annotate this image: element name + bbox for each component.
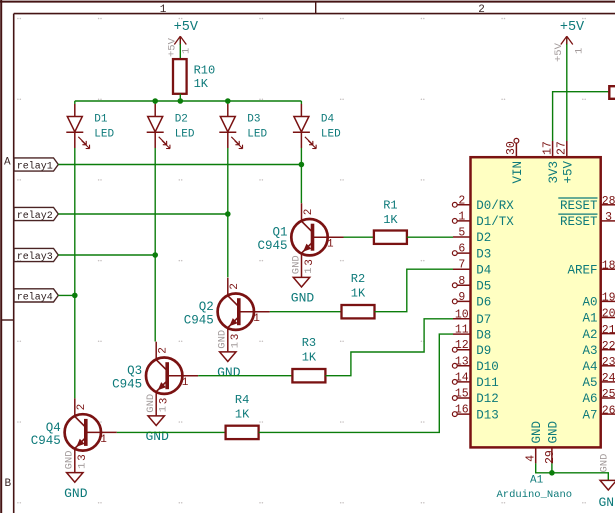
label Q2 value C945: [184, 314, 214, 328]
svg-text:12: 12: [455, 339, 469, 352]
svg-text:3: 3: [304, 259, 316, 266]
pin 2 D0/RX: [452, 194, 514, 213]
frame column label 2: [478, 4, 485, 16]
label R3: [302, 336, 316, 350]
pin 19 A0: [582, 292, 615, 310]
svg-text:23: 23: [602, 356, 615, 369]
hidden power pin text GND (Q4): [64, 450, 89, 469]
svg-text:LED: LED: [175, 128, 195, 140]
svg-text:+5V: +5V: [560, 20, 585, 35]
svg-text:D0/RX: D0/RX: [476, 199, 514, 213]
pin 12 D9: [452, 339, 491, 358]
svg-text:D1: D1: [94, 113, 108, 125]
pin 24 A5: [582, 372, 615, 390]
svg-text:A6: A6: [582, 392, 597, 406]
svg-text:AREF: AREF: [567, 263, 597, 277]
hierarchical label relay4: [14, 289, 58, 304]
svg-text:R3: R3: [302, 336, 316, 350]
pin 10 D7: [453, 308, 491, 327]
svg-text:C945: C945: [257, 239, 287, 253]
pin 14 D11: [452, 371, 498, 390]
wire +5V to R10: [179, 44, 181, 59]
svg-text:relay3: relay3: [17, 251, 53, 263]
label D2 value LED: [175, 128, 195, 140]
svg-text:D8: D8: [476, 328, 491, 342]
svg-text:GND: GND: [291, 291, 315, 306]
transistor Q1: [291, 203, 343, 277]
label Arduino_Nano: [497, 489, 573, 501]
wire +5V to pin 27: [566, 44, 568, 141]
svg-text:14: 14: [455, 371, 469, 384]
svg-text:D13: D13: [476, 408, 499, 422]
svg-text:D12: D12: [476, 392, 499, 406]
junction bus/D2: [152, 98, 158, 104]
pin 17 3V3: [541, 141, 561, 184]
wire GND pin 29: [551, 463, 553, 472]
svg-text:D2: D2: [175, 113, 188, 125]
ground symbol below Q1: [293, 277, 309, 287]
pin 15 D12: [452, 388, 498, 407]
svg-text:D9: D9: [476, 344, 491, 358]
svg-text:1: 1: [182, 377, 189, 389]
label D4 value LED: [321, 128, 341, 140]
svg-text:Q2: Q2: [199, 300, 214, 314]
label GND bottom right: [599, 495, 615, 510]
svg-text:2: 2: [76, 404, 88, 411]
wire Q2 base to R2: [270, 311, 342, 313]
svg-text:Q3: Q3: [127, 364, 142, 378]
pin 13 D10: [452, 355, 498, 374]
wire Q3 base to R3: [198, 375, 292, 377]
frame row label B: [4, 478, 11, 490]
junction relay2/column: [225, 211, 231, 217]
svg-text:D3: D3: [476, 247, 491, 261]
svg-text:GND: GND: [145, 429, 169, 444]
svg-text:1K: 1K: [302, 351, 317, 365]
wire GND to symbol: [552, 473, 608, 481]
svg-text:30: 30: [505, 141, 518, 155]
wire D4 cathode column: [300, 148, 302, 203]
svg-text:D7: D7: [476, 313, 491, 327]
svg-text:GND: GND: [64, 486, 88, 501]
svg-text:+5V: +5V: [167, 37, 179, 57]
pin 27 +5V: [556, 141, 576, 184]
hidden power pin text +5V#1: [167, 37, 193, 57]
svg-text:GND: GND: [145, 394, 157, 413]
hierarchical label relay3: [14, 248, 58, 263]
ground symbol below Q3: [148, 416, 164, 426]
svg-text:LED: LED: [247, 128, 267, 140]
svg-text:A: A: [4, 157, 11, 169]
resistor R2: [342, 305, 375, 318]
op-amp — Arduino_Nano body U/A1: [471, 157, 601, 447]
svg-text:+5V: +5V: [561, 160, 575, 183]
svg-text:1: 1: [229, 342, 241, 348]
pin 28 RESET: [558, 195, 615, 213]
svg-text:1: 1: [158, 406, 170, 412]
svg-text:C945: C945: [31, 434, 61, 448]
svg-text:3V3: 3V3: [547, 161, 561, 184]
resistor R1: [374, 231, 407, 244]
svg-text:GND: GND: [599, 454, 611, 473]
pin 23 A4: [582, 356, 615, 374]
svg-text:D4: D4: [321, 113, 335, 125]
label GND below Q4: [64, 486, 88, 501]
junction relay1/column: [299, 162, 305, 168]
svg-text:17: 17: [541, 141, 554, 155]
transistor Q3: [146, 342, 198, 416]
wire D3 cathode column: [227, 148, 229, 277]
svg-text:VIN: VIN: [511, 161, 525, 184]
label Q2: [199, 300, 214, 314]
LED D4: [293, 101, 316, 149]
svg-text:RESET: RESET: [560, 199, 598, 213]
label GND below Q1: [291, 291, 315, 306]
LED D1: [66, 101, 89, 149]
svg-text:RESET: RESET: [560, 215, 598, 229]
label GND below Q3: [145, 429, 169, 444]
transistor Q4: [65, 398, 117, 472]
svg-text:+5V: +5V: [174, 20, 199, 35]
svg-text:2: 2: [229, 283, 241, 290]
svg-text:19: 19: [602, 292, 615, 305]
svg-text:relay1: relay1: [17, 160, 53, 172]
pin 20 A1: [582, 308, 615, 326]
hidden power pin text GND (bottom right): [599, 454, 611, 473]
hidden power pin text GND (Q2): [217, 330, 242, 349]
pin 25 A6: [582, 388, 615, 406]
wire R2 to pin D4: [375, 269, 454, 312]
svg-text:Q4: Q4: [46, 421, 61, 435]
LED D2: [147, 101, 170, 149]
component box at right edge (3V3 net): [609, 86, 615, 99]
svg-text:GND: GND: [546, 421, 560, 444]
label R10 value 1K: [194, 77, 209, 91]
junction relay4/column: [72, 293, 78, 299]
hidden power pin text +5V#2: [553, 42, 586, 62]
pin 18 AREF: [567, 259, 615, 277]
label D2: [175, 113, 188, 125]
svg-text:3: 3: [159, 398, 171, 405]
svg-text:13: 13: [455, 355, 469, 368]
label R2: [351, 272, 365, 286]
resistor R4: [226, 426, 259, 439]
power +5V (top right): [560, 20, 585, 45]
wire LED anode bus: [75, 100, 302, 102]
transistor Q2: [218, 278, 270, 352]
pin 11 D8: [453, 324, 491, 343]
LED D3: [219, 101, 242, 149]
wire relay4: [58, 294, 75, 296]
svg-text:1: 1: [327, 239, 334, 251]
pin 9 D6: [452, 291, 491, 310]
hierarchical label relay2: [14, 207, 58, 222]
wire relay3: [58, 254, 155, 256]
junction relay3/column: [152, 252, 158, 258]
pin 4 GND: [524, 421, 544, 463]
wire GND pin 4: [536, 463, 552, 472]
svg-text:11: 11: [455, 324, 469, 337]
svg-text:relay2: relay2: [17, 210, 53, 222]
svg-text:25: 25: [602, 388, 615, 401]
junction bus/R10: [178, 98, 184, 104]
wire relay1: [58, 164, 301, 166]
pin 5 D2: [453, 227, 491, 246]
svg-text:28: 28: [602, 195, 615, 208]
svg-text:26: 26: [602, 404, 615, 417]
svg-text:R1: R1: [383, 198, 397, 212]
hidden power pin text GND (Q3): [145, 394, 170, 413]
svg-text:GND: GND: [290, 255, 302, 274]
wire 3V3 to right edge: [553, 92, 609, 141]
power +5V (R10 top): [174, 20, 199, 45]
svg-text:1: 1: [574, 48, 586, 54]
pin 6 D3: [452, 243, 491, 262]
svg-text:8: 8: [458, 275, 465, 288]
label R4: [235, 393, 249, 407]
svg-text:A1: A1: [530, 475, 544, 487]
pin 16 D13: [452, 404, 498, 423]
svg-text:10: 10: [455, 308, 469, 321]
svg-text:A2: A2: [582, 328, 597, 342]
svg-text:D11: D11: [476, 376, 499, 390]
label D3: [247, 113, 260, 125]
svg-text:29: 29: [544, 450, 557, 464]
svg-text:R10: R10: [194, 64, 216, 78]
svg-text:D5: D5: [476, 280, 491, 294]
svg-text:18: 18: [602, 259, 615, 272]
svg-text:D3: D3: [247, 113, 260, 125]
svg-text:R4: R4: [235, 393, 249, 407]
wire D2 cathode column: [154, 148, 156, 342]
svg-text:21: 21: [602, 324, 615, 337]
svg-text:7: 7: [458, 259, 465, 272]
wire R10 to LED bus: [179, 94, 181, 101]
svg-text:Q1: Q1: [272, 226, 287, 240]
pin 21 A2: [582, 324, 615, 342]
svg-text:A1: A1: [582, 312, 597, 326]
junction GND: [549, 470, 555, 476]
wire relay2: [58, 213, 228, 215]
svg-text:1K: 1K: [383, 213, 398, 227]
svg-text:A5: A5: [582, 376, 597, 390]
svg-text:5: 5: [458, 227, 465, 240]
svg-text:A4: A4: [582, 360, 597, 374]
label Q4 value C945: [31, 434, 61, 448]
svg-text:3: 3: [605, 211, 612, 224]
svg-text:relay4: relay4: [17, 291, 53, 303]
resistor R3: [292, 369, 325, 382]
svg-text:24: 24: [602, 372, 615, 385]
svg-text:D4: D4: [476, 263, 491, 277]
svg-text:A7: A7: [582, 408, 597, 422]
junction bus/D3: [225, 98, 231, 104]
svg-text:3: 3: [230, 334, 242, 341]
svg-text:GND: GND: [530, 421, 544, 444]
svg-text:D1/TX: D1/TX: [476, 215, 514, 229]
svg-text:GND: GND: [217, 330, 229, 349]
label D1 value LED: [94, 128, 114, 140]
label Q4: [46, 421, 61, 435]
pin 1 D1/TX: [452, 210, 514, 229]
svg-text:1: 1: [100, 434, 107, 446]
svg-text:B: B: [4, 478, 11, 490]
ground symbol below Q2: [220, 352, 236, 362]
label GND below Q2: [217, 365, 241, 380]
svg-text:1: 1: [181, 48, 193, 54]
pin 22 A3: [582, 340, 615, 358]
svg-text:D10: D10: [476, 360, 499, 374]
wire R3 to pin D7: [325, 319, 453, 376]
pin 3 RESET: [558, 211, 615, 229]
svg-text:1: 1: [76, 463, 88, 469]
label R3 value 1K: [302, 351, 317, 365]
pin 7 D4: [453, 259, 491, 278]
label Q1 value C945: [257, 239, 287, 253]
wire R1 to pin D2: [407, 236, 453, 238]
svg-text:A0: A0: [582, 296, 597, 310]
frame column tick: [315, 2, 317, 14]
svg-text:GND: GND: [217, 365, 241, 380]
svg-text:LED: LED: [94, 128, 114, 140]
svg-text:C945: C945: [184, 314, 214, 328]
pin 26 A7: [582, 404, 615, 422]
frame row tick: [1, 319, 14, 321]
resistor R10: [173, 59, 187, 94]
label R1 value 1K: [383, 213, 398, 227]
svg-text:6: 6: [458, 243, 465, 256]
svg-text:1: 1: [458, 210, 465, 223]
svg-text:D6: D6: [476, 296, 491, 310]
wire Q4 base to R4: [117, 431, 226, 433]
svg-text:1K: 1K: [235, 407, 250, 421]
wire R4 to pin D8: [259, 334, 453, 432]
frame row label A: [4, 157, 11, 169]
svg-text:20: 20: [602, 308, 615, 321]
frame column label 1: [160, 4, 167, 16]
hidden power pin text GND (Q1): [290, 255, 315, 274]
hierarchical label relay1: [14, 158, 58, 173]
label R2 value 1K: [351, 287, 366, 301]
svg-text:D2: D2: [476, 231, 491, 245]
label D4: [321, 113, 335, 125]
svg-text:A3: A3: [582, 344, 597, 358]
label R1: [383, 198, 397, 212]
label D3 value LED: [247, 128, 267, 140]
pin 29 GND: [544, 421, 561, 464]
svg-text:3: 3: [77, 454, 89, 461]
svg-text:1: 1: [160, 4, 167, 16]
wire D1 cathode column: [74, 148, 76, 398]
label Q3 value C945: [112, 378, 142, 392]
svg-text:2: 2: [303, 209, 315, 216]
svg-text:Arduino_Nano: Arduino_Nano: [497, 489, 573, 501]
label R4 value 1K: [235, 407, 250, 421]
svg-text:LED: LED: [321, 128, 341, 140]
label Q1: [272, 226, 287, 240]
svg-text:C945: C945: [112, 378, 142, 392]
svg-text:27: 27: [556, 141, 569, 155]
label R10: [194, 64, 216, 78]
svg-text:9: 9: [458, 291, 465, 304]
pin 8 D5: [452, 275, 491, 294]
ground symbol below Q4: [67, 473, 83, 483]
svg-text:1: 1: [253, 313, 260, 325]
ground symbol bottom right: [600, 480, 615, 490]
svg-text:2: 2: [158, 347, 170, 354]
wire Q1 base to R1: [344, 236, 374, 238]
svg-text:2: 2: [458, 194, 465, 207]
svg-text:2: 2: [478, 4, 485, 16]
pin 30 VIN: [505, 138, 525, 183]
svg-text:+5V: +5V: [553, 42, 565, 62]
svg-text:R2: R2: [351, 272, 365, 286]
label D1: [94, 113, 108, 125]
svg-text:4: 4: [524, 455, 537, 462]
svg-text:GND: GND: [64, 450, 76, 469]
label Q3: [127, 364, 142, 378]
svg-text:GND: GND: [599, 495, 615, 510]
svg-text:22: 22: [602, 340, 615, 353]
svg-text:15: 15: [455, 388, 469, 401]
label A1 (reference): [530, 475, 544, 487]
svg-text:1: 1: [303, 267, 315, 273]
svg-text:1K: 1K: [194, 77, 209, 91]
svg-text:1K: 1K: [351, 287, 366, 301]
svg-text:16: 16: [455, 404, 469, 417]
